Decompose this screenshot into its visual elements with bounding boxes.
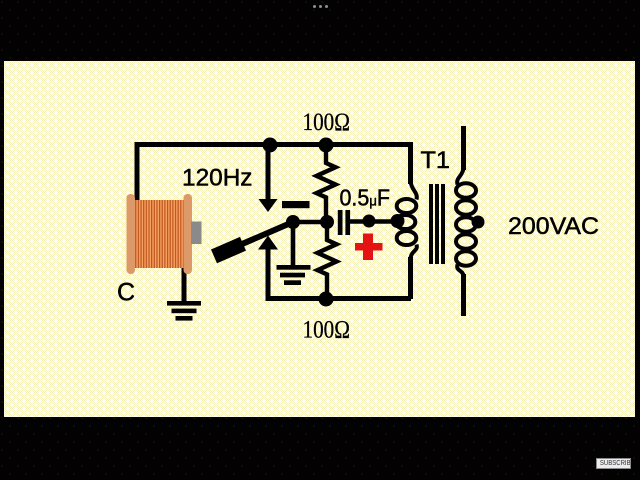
coil C: gray wiper contact pad	[191, 222, 202, 245]
svg-text:200VAC: 200VAC	[508, 213, 599, 240]
capacitor plate left	[338, 210, 343, 235]
transformer primary loop 3	[397, 231, 417, 245]
transformer secondary loop 1	[456, 183, 476, 197]
transformer core line 1	[429, 184, 433, 264]
coil C: winding body	[134, 200, 186, 268]
resistor R1 (top 100 ohm)	[317, 151, 336, 216]
minus sign bar	[282, 201, 310, 208]
transformer core line 2	[435, 184, 439, 264]
middle ground: bar 3	[284, 280, 301, 285]
wiper arm thick handle	[214, 244, 243, 257]
wire: capacitor to transformer primary tap	[350, 219, 396, 224]
transformer primary loop 2	[396, 215, 416, 229]
wire: wiper node down to middle ground	[291, 222, 296, 265]
node dot: bottom junction	[319, 292, 334, 307]
wire: left vertical from top-left corner down to coil C	[135, 142, 140, 200]
up arrow head	[258, 236, 278, 250]
wiper arm thin shaft	[219, 222, 293, 254]
schematic paper background	[4, 61, 635, 417]
svg-text:100Ω: 100Ω	[303, 107, 351, 136]
middle ground: bar 2	[280, 273, 305, 278]
red plus polarity mark	[355, 234, 383, 261]
transformer primary coil hook top	[411, 181, 417, 200]
wire: top horizontal from top-left corner to top-right corner	[137, 142, 410, 147]
wire: right vertical from top-right corner down to transformer primary	[408, 142, 413, 184]
node dot: secondary polarity dot	[472, 216, 485, 229]
svg-text:C: C	[117, 279, 135, 307]
ground under coil C: bar 1	[167, 301, 201, 306]
node dot: top-left junction	[263, 138, 278, 153]
transformer core line 3	[441, 184, 445, 264]
video top menu dots	[313, 5, 329, 9]
resistor R2 (bottom 100 ohm)	[318, 228, 337, 293]
svg-text:T1: T1	[421, 147, 451, 174]
svg-text:0.5μF: 0.5μF	[340, 185, 391, 211]
ground under coil C: bar 3	[176, 316, 193, 321]
wire: bottom horizontal from up-arrow corner to bottom-right corner	[266, 296, 412, 301]
wire: right vertical from transformer primary down to bottom-right corner	[408, 257, 413, 299]
transformer secondary hook top	[457, 168, 463, 185]
transformer secondary loop 5	[456, 251, 476, 265]
node dot: on cap wire	[363, 215, 376, 228]
wire: wiper node to middle node	[293, 220, 327, 225]
node dot: middle node between R1 R2	[320, 215, 334, 229]
down arrow head	[259, 199, 278, 212]
transformer secondary hook bottom	[457, 265, 463, 277]
transformer secondary loop 3	[456, 217, 476, 231]
ground under coil C: bar 2	[172, 309, 197, 314]
transformer secondary loop 2	[456, 200, 476, 214]
svg-text:100Ω: 100Ω	[303, 315, 351, 344]
transformer secondary top lead	[461, 126, 466, 170]
coil C: left flange	[127, 194, 136, 274]
subscribe button overlay	[596, 458, 631, 469]
node dot: primary tap	[391, 214, 405, 228]
capacitor plate right	[345, 210, 350, 235]
coil C: right flange	[184, 194, 193, 274]
node dot: wiper node	[286, 215, 300, 229]
transformer secondary bottom lead	[461, 274, 466, 316]
transformer primary coil hook bottom	[411, 245, 417, 260]
transformer primary loop 1	[397, 199, 417, 213]
coil C: bottom lead wire to ground	[182, 265, 187, 302]
svg-text:120Hz: 120Hz	[182, 165, 253, 192]
transformer secondary loop 4	[456, 234, 476, 248]
up arrow shaft from bottom wire	[266, 249, 271, 298]
node dot: top of resistor R1	[319, 138, 334, 153]
middle ground: bar 1	[277, 265, 311, 270]
down arrow (signal into wiper) shaft	[266, 146, 271, 200]
